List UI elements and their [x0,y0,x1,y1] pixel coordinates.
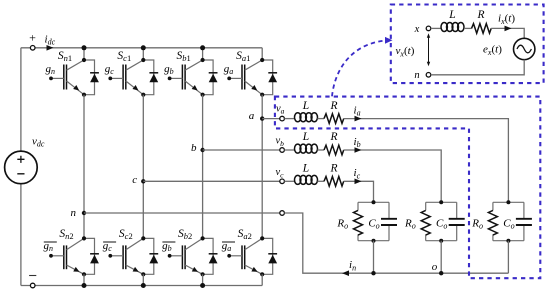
junction load a bottom [506,239,510,243]
svg-text:a: a [249,110,255,122]
node n equivalent [426,73,431,78]
inductor L phase b [295,144,301,153]
wire inductor to resistor phase c [318,180,325,182]
svg-text:o: o [432,261,438,273]
wire leg c mid column [142,181,144,238]
current ic arrow [355,179,362,185]
inductor L phase a [295,113,301,122]
resistor R phase b [324,145,344,155]
wire resistor to load phase a [344,119,509,203]
svg-text:n: n [70,207,76,219]
junction load c top [372,200,376,204]
wire source to n [431,60,524,75]
current in arrow [342,270,349,276]
wire leg b mid column [202,150,204,238]
node c1 internal [141,58,145,62]
diode Da2 [268,253,277,255]
transistor Sa2 [262,238,273,274]
diode Dn1 [90,72,99,74]
node n2 internal [82,236,86,240]
wire inductor to resistor phase b [318,149,325,151]
wire leg n mid column [83,213,85,238]
svg-text:vx(t): vx(t) [396,45,415,58]
wire leg c emitter to rail [142,274,144,285]
diode Dn2 [90,253,99,255]
node b1 internal [201,58,205,62]
junction load c bottom [372,239,376,243]
junction bottom rail leg b [200,283,205,288]
node a1 internal [260,58,264,62]
wire resistor to load phase b [344,150,442,202]
transistor Sn2 [84,238,95,274]
node n [82,211,86,215]
wire leg b collector [202,48,204,60]
wire resistor to load phase c [344,181,374,202]
svg-text:R: R [476,9,484,21]
wire load a bottom to return [507,241,509,274]
source ex(t) [514,38,535,59]
svg-text:b: b [191,142,197,154]
wire leg n emitter to rail [83,274,85,285]
node b [200,148,204,152]
diode Db2 [209,253,218,255]
wire leg n collector [83,48,85,60]
node va terminal [280,116,285,121]
diode Dc1 [149,72,158,74]
source Vdc [5,151,38,184]
node a2 internal [260,236,264,240]
resistor R equivalent [472,24,492,34]
wire resistor to source [491,28,524,38]
capacitor C_o phase c [388,202,390,219]
equivalent circuit box [391,5,544,84]
wire vc to inductor [284,180,295,182]
transistor Sn1 [84,60,95,95]
svg-text:ix(t): ix(t) [498,13,515,26]
wire leg a mid column [261,119,263,239]
arrow to equivalent circuit [332,40,386,96]
svg-text:L: L [302,100,309,112]
inductor L phase c [295,175,301,184]
wire n terminal to return row [284,213,508,273]
resistor R phase a [324,114,344,124]
net highlighted phase-a subcircuit (dashed box) [275,97,540,279]
wire leg a emitter to rail [261,274,263,285]
resistor R phase c [324,177,344,187]
resistor R_o phase b [421,210,430,235]
svg-text:x: x [414,24,420,35]
load R_o C_o phase c [358,201,389,203]
load R_o C_o phase b [426,201,457,203]
wire node b to terminal [203,149,280,151]
wire vb to inductor [284,149,295,151]
svg-text:c: c [132,174,137,186]
transistor Sb2 [203,238,214,274]
svg-text:R: R [329,163,337,175]
wire node n to terminal [84,212,280,214]
wire inductor to resistor phase a [318,118,325,120]
wire leg c collector [142,48,144,60]
wire leg a emitter to node [261,95,263,119]
junction bottom rail leg n [82,283,87,288]
junction top rail leg n [82,45,87,50]
node vc terminal [280,179,285,184]
wire left DC rail [20,48,22,286]
wire leg b emitter to rail [202,274,204,285]
current ix arrow [505,26,512,32]
resistor R_o phase c [354,210,363,235]
wire inductor to resistor equivalent [464,27,472,29]
node c [141,179,145,183]
junction bottom rail leg c [141,283,146,288]
wire top DC rail [21,47,262,49]
wire node a to terminal [262,118,280,120]
wire load b bottom to return [440,241,442,274]
node c2 internal [141,236,145,240]
node b2 internal [201,236,205,240]
node + terminal top [30,46,35,51]
wire leg a collector [261,48,263,60]
node n terminal [280,211,285,216]
transistor Sa1 [262,60,273,95]
diode Dc2 [149,253,158,255]
current ia arrow [355,116,362,122]
wire bottom DC rail [21,285,262,287]
wire x to inductor [431,27,442,29]
wire leg b emitter to node [202,95,204,150]
svg-text:L: L [302,131,309,143]
svg-text:R: R [329,131,337,143]
svg-text:L: L [448,9,455,21]
wire leg c emitter to node [142,95,144,182]
current idc arrow [47,45,54,51]
resistor R_o phase a [488,210,497,235]
wire load c bottom to return [373,241,375,274]
junction return row c [371,271,375,275]
capacitor C_o phase a [523,202,525,219]
svg-text:R: R [329,100,337,112]
current ib arrow [355,147,362,153]
wire node c to terminal [143,180,279,182]
node a [260,116,264,120]
junction return row b [439,271,443,275]
load R_o C_o phase a [493,201,524,203]
node vb terminal [280,148,285,153]
node n1 internal [82,58,86,62]
wire va to inductor [284,118,295,120]
svg-text:n: n [414,70,419,81]
svg-text:+: + [28,31,36,45]
svg-text:L: L [302,163,309,175]
diode Da1 [268,72,277,74]
svg-text:ex(t): ex(t) [483,44,502,57]
voltage vx(t) measure arrow [428,35,430,64]
junction top rail leg b [200,45,205,50]
diode Db1 [209,72,218,74]
capacitor C_o phase b [456,202,458,219]
transistor Sb1 [203,60,214,95]
transistor Sc1 [143,60,154,95]
wire leg n emitter to node [83,95,85,213]
junction load a top [506,200,510,204]
inductor L equivalent [441,23,447,32]
junction load b top [439,200,443,204]
junction top rail leg c [141,45,146,50]
transistor Sc2 [143,238,154,274]
node - terminal bottom [30,283,35,288]
junction load b bottom [439,239,443,243]
node x [426,26,431,31]
